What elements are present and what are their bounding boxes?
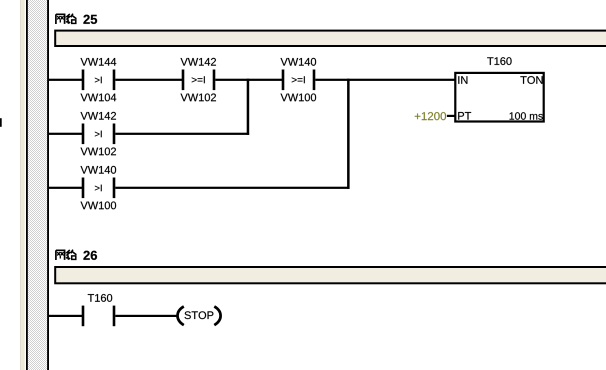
wire: rung 2 contact to junction bbox=[115, 133, 249, 135]
label VW140 bbox=[281, 58, 317, 66]
network 25 comment box bbox=[55, 31, 606, 46]
compare contact VW142 &gt;= VW102 bbox=[182, 70, 216, 91]
power rail right border bbox=[47, 0, 49, 370]
wire: rail to contact T160 bbox=[48, 315, 82, 317]
label VW142 bbox=[181, 58, 216, 66]
timer pin IN bbox=[458, 76, 467, 84]
timer type TON bbox=[520, 76, 542, 84]
network 26 title number bbox=[83, 251, 97, 260]
left window edge text mark bbox=[0, 118, 2, 127]
page margin guide line bbox=[19, 0, 22, 370]
PT input stub wire bbox=[447, 115, 455, 117]
compare contact VW142 &gt; VW102 (rung 2) bbox=[82, 124, 116, 145]
compare contact VW140 &gt; VW100 (rung 3) bbox=[82, 178, 116, 199]
wire: contact 2 to contact 3 bbox=[215, 79, 282, 81]
contact T160 bbox=[82, 306, 116, 327]
wire: rung 3 contact to junction bbox=[115, 187, 349, 189]
label VW100 bbox=[281, 94, 317, 102]
timer resolution 100 ms bbox=[510, 112, 543, 119]
wire: rail to rung 2 contact bbox=[48, 133, 82, 135]
label VW100 (rung 3) bbox=[81, 202, 117, 210]
branch wire down to rung 3 bbox=[347, 79, 350, 189]
wire: contact 1 to contact 2 bbox=[115, 79, 182, 81]
network 25 title 网络 bbox=[56, 14, 65, 24]
network 26 comment box bbox=[55, 267, 606, 283]
label VW142 (rung 2) bbox=[81, 112, 116, 120]
label VW144 bbox=[81, 58, 117, 66]
label VW104 bbox=[81, 94, 117, 102]
timer box T160 TON bbox=[455, 73, 543, 122]
gutter stripe bbox=[21, 0, 25, 370]
power rail dithered bar bbox=[28, 0, 47, 370]
coil STOP label bbox=[185, 311, 214, 319]
branch wire down to rung 2 bbox=[247, 79, 250, 135]
label VW102 bbox=[181, 94, 216, 102]
label VW102 (rung 2) bbox=[81, 148, 116, 156]
coil STOP right paren bbox=[214, 306, 220, 325]
label T160 bbox=[88, 294, 112, 302]
compare contact VW144 &gt; VW104 bbox=[82, 70, 116, 91]
network 25 title number bbox=[83, 15, 97, 24]
wire: rail to rung 3 contact bbox=[48, 187, 82, 189]
timer pin PT bbox=[458, 112, 471, 120]
PT operand +1200 bbox=[415, 112, 446, 120]
wire: contact 3 to timer box bbox=[315, 79, 455, 81]
compare contact VW140 &gt;= VW100 bbox=[282, 70, 316, 91]
timer label T160 bbox=[487, 57, 511, 65]
coil STOP left paren bbox=[178, 306, 184, 325]
network 26 title 网络 bbox=[56, 250, 65, 260]
wire: rail to contact 1 bbox=[48, 79, 82, 81]
label VW140 (rung 3) bbox=[81, 166, 117, 174]
wire: contact T160 to coil bbox=[115, 315, 177, 317]
power rail left border bbox=[26, 0, 28, 370]
